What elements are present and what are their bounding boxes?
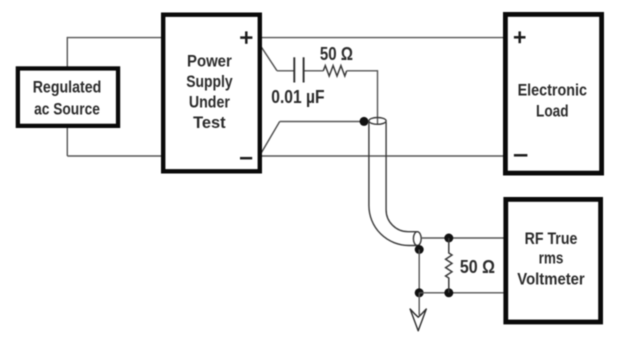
svg-text:Test: Test — [193, 114, 226, 132]
resistor R2 50 ohm shunt vertical zigzag — [446, 238, 452, 293]
wire: ac source loop left vertical bottom — [66, 128, 68, 156]
svg-text:rms: rms — [539, 250, 564, 268]
minus terminal electronic load — [514, 154, 528, 157]
plus terminal electronic load — [514, 31, 526, 43]
wire: coax end to voltmeter top — [421, 237, 504, 239]
svg-text:Regulated: Regulated — [33, 79, 102, 97]
svg-text:50 Ω: 50 Ω — [460, 257, 495, 277]
junction dot bottom ground bus — [415, 288, 424, 297]
capacitor C1 0.01uF plates — [294, 57, 303, 82]
svg-text:Under: Under — [189, 94, 231, 112]
svg-text:Electronic: Electronic — [518, 81, 587, 99]
box: power supply under test — [163, 15, 260, 172]
wire: ground stub — [418, 293, 420, 315]
coax tube end opening ellipse — [413, 232, 421, 246]
minus terminal PSU — [240, 157, 252, 160]
svg-text:ac Source: ac Source — [34, 100, 100, 118]
svg-text:Voltmeter: Voltmeter — [517, 270, 585, 288]
junction dot at coax shield — [360, 117, 369, 126]
wire: ac source loop bottom horizontal — [67, 155, 163, 157]
svg-text:50 Ω: 50 Ω — [320, 44, 353, 64]
svg-text:Power: Power — [187, 53, 232, 71]
wire: bottom horizontal to voltmeter — [419, 292, 504, 294]
wire: capacitor to resistor lead — [305, 70, 324, 72]
junction dot bottom of 50 ohm shunt — [444, 288, 453, 297]
wire: shield line from minus diagonal — [262, 122, 280, 153]
wire: vertical ground bus — [418, 250, 420, 293]
coax tube top opening ellipse — [369, 118, 386, 125]
svg-text:Supply: Supply — [186, 73, 232, 91]
box: rf true rms voltmeter — [506, 199, 601, 322]
coax tube right inner edge with bend — [386, 122, 417, 232]
svg-text:0.01 µF: 0.01 µF — [271, 87, 324, 107]
wire: ac source loop top horizontal — [67, 37, 163, 39]
wire: shield horizontal to coax — [280, 121, 364, 123]
wire: capacitor left lead — [277, 70, 294, 72]
plus terminal PSU — [240, 31, 252, 43]
wire: vertical drop into coax center — [377, 70, 379, 124]
wire: diagonal from plus terminal to capacitor branch — [262, 47, 278, 71]
coax tube left outer edge with bend — [369, 121, 417, 246]
junction dot top of 50 ohm shunt — [444, 234, 453, 243]
wire: PSU minus to electronic load minus — [261, 155, 504, 157]
svg-text:Load: Load — [536, 102, 569, 120]
resistor R1 50 ohm zigzag — [323, 66, 346, 76]
svg-text:RF True: RF True — [525, 230, 578, 248]
wire: ac source loop left vertical top — [66, 37, 68, 67]
junction dot below coax end — [415, 245, 424, 254]
box: electronic load — [505, 14, 601, 173]
wire: PSU plus to electronic load plus — [261, 37, 504, 39]
box: regulated ac source — [18, 68, 118, 125]
ground arrow — [410, 309, 426, 331]
wire: resistor to vertical drop — [347, 70, 378, 72]
